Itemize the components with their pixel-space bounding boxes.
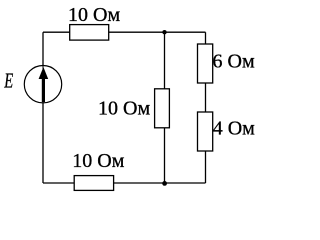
svg-text:6 Ом: 6 Ом xyxy=(213,51,255,73)
svg-text:E: E xyxy=(3,68,13,92)
svg-text:4 Ом: 4 Ом xyxy=(213,118,255,140)
svg-text:10 Ом: 10 Ом xyxy=(72,150,124,172)
svg-text:10 Ом: 10 Ом xyxy=(68,4,120,26)
svg-text:10 Ом: 10 Ом xyxy=(98,98,150,120)
